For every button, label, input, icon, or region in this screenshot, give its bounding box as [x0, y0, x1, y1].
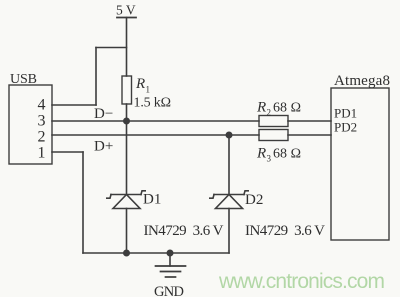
wire D2 vertical from D+ net: [228, 135, 230, 195]
svg-text:4: 4: [38, 97, 46, 114]
svg-text:3: 3: [38, 113, 46, 130]
svg-text:www.cntronics.com: www.cntronics.com: [218, 270, 385, 293]
svg-text:2: 2: [38, 129, 46, 146]
wire D2 bottom stub: [228, 209, 230, 254]
diode D1 value label IN4729 3.6 V: [144, 223, 224, 239]
wire R1 bottom stub: [126, 104, 128, 121]
diode D1 zener: [107, 191, 145, 209]
svg-text:D+: D+: [94, 139, 113, 155]
node junction GND stem on ground rail: [167, 250, 174, 257]
svg-text:1: 1: [38, 145, 46, 162]
wire D- net from pin3 to R2: [52, 120, 259, 122]
svg-text:D1: D1: [143, 192, 161, 208]
svg-text:R: R: [256, 146, 266, 162]
wire R2 to Atmega PD1: [288, 120, 331, 122]
wire D+ net from pin2 to R3: [52, 134, 259, 136]
svg-text:IN4729 3.6 V: IN4729 3.6 V: [245, 223, 325, 239]
node D+ label: [94, 139, 113, 155]
svg-text:GND: GND: [154, 284, 184, 297]
node junction D2 on D+ wire: [226, 132, 233, 139]
wire USB pin4 horizontal: [52, 104, 96, 106]
wire ground rail: [83, 252, 229, 254]
svg-text:USB: USB: [10, 72, 37, 87]
svg-text:R: R: [135, 76, 145, 92]
svg-text:R: R: [256, 100, 266, 116]
svg-text:IN4729 3.6 V: IN4729 3.6 V: [144, 223, 224, 239]
power 5V bar: [117, 17, 136, 19]
resistor R1: [122, 76, 132, 104]
wire D1 bottom stub: [126, 209, 128, 254]
USB connector box: [9, 85, 52, 164]
power 5V label: [116, 3, 136, 18]
diode D2 zener: [210, 191, 248, 209]
svg-text:PD2: PD2: [334, 119, 357, 134]
svg-text:Atmega8: Atmega8: [334, 73, 390, 89]
svg-text:2: 2: [267, 108, 272, 118]
svg-text:1: 1: [146, 85, 151, 95]
resistor R3: [259, 130, 288, 141]
wire D1 vertical from D- net: [126, 121, 128, 195]
svg-text:1.5 kΩ: 1.5 kΩ: [134, 96, 172, 111]
diode D2 value label IN4729 3.6 V: [245, 223, 325, 239]
svg-text:PD1: PD1: [334, 106, 357, 121]
svg-text:68 Ω: 68 Ω: [273, 101, 301, 116]
wire 5V vertical to R1: [126, 18, 128, 77]
wire pin1 vertical to ground rail: [82, 152, 84, 253]
svg-text:68 Ω: 68 Ω: [273, 147, 301, 162]
svg-text:D−: D−: [94, 106, 113, 122]
wire pin1 horizontal: [52, 151, 83, 153]
wire branch horizontal 5V to pin4 column: [96, 47, 127, 49]
IC U1 Atmega8 box: [331, 88, 389, 240]
node junction D1 on ground rail: [123, 250, 130, 257]
svg-text:5 V: 5 V: [116, 3, 136, 18]
wire R3 to Atmega PD2: [288, 134, 331, 136]
ground symbol: [156, 253, 186, 277]
svg-text:D2: D2: [245, 192, 263, 208]
wire pin4 vertical: [95, 48, 97, 106]
svg-text:3: 3: [267, 154, 272, 164]
node junction R1/D1 on D- wire: [123, 118, 130, 125]
resistor R2: [259, 116, 288, 127]
node D- label: [94, 106, 113, 122]
